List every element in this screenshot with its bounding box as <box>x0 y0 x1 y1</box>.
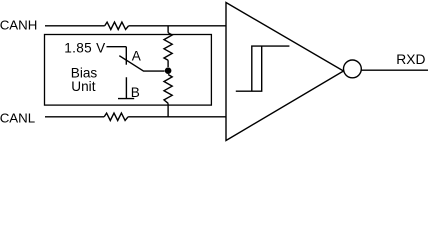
svg-text:A: A <box>132 48 142 63</box>
comparator U1 <box>226 3 344 141</box>
hysteresis symbol <box>236 46 290 91</box>
svg-text:RXD: RXD <box>396 52 425 67</box>
node (divider midpoint junction) <box>165 67 172 74</box>
wire <box>167 60 169 67</box>
wire <box>45 116 104 118</box>
wire <box>45 25 105 27</box>
wire <box>167 103 169 117</box>
inverter bubble <box>344 60 362 78</box>
resistor R1 <box>105 22 129 29</box>
svg-text:Unit: Unit <box>71 79 95 94</box>
svg-text:CANH: CANH <box>0 18 37 33</box>
svg-text:CANL: CANL <box>0 111 35 126</box>
wire <box>129 25 226 27</box>
resistor R4 (lower divider) <box>164 75 172 104</box>
svg-text:B: B <box>131 85 140 100</box>
resistor R3 (upper divider) <box>164 33 172 61</box>
bias unit box <box>45 35 212 106</box>
wire <box>128 116 226 118</box>
switch contact A <box>125 47 127 65</box>
svg-text:1.85 V: 1.85 V <box>64 41 105 56</box>
resistor R2 <box>104 113 128 120</box>
switch arm <box>119 56 164 71</box>
wire <box>167 26 169 33</box>
switch contact B <box>118 77 134 98</box>
wire <box>361 69 428 71</box>
wire (1.85 V lead) <box>107 46 127 48</box>
